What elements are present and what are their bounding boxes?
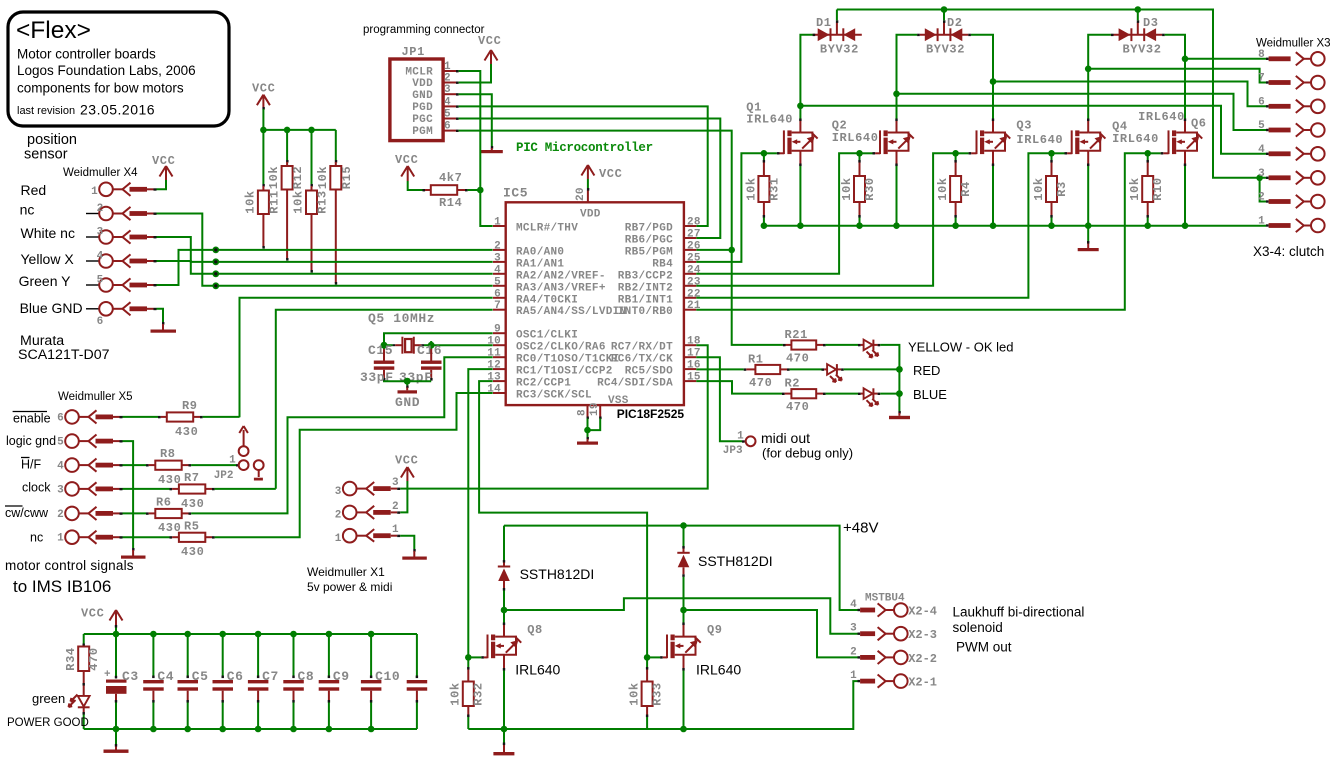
wire: Q9 drain node to X2 pin2 xyxy=(680,607,857,658)
svg-text:VCC: VCC xyxy=(152,154,175,168)
connector X3 pin 3 xyxy=(1258,168,1325,185)
wire: D3 right anode to Q6 drain column xyxy=(1165,35,1185,121)
svg-text:R4: R4 xyxy=(959,181,973,197)
svg-text:MCLR#/THV: MCLR#/THV xyxy=(516,223,578,235)
svg-text:20: 20 xyxy=(575,187,587,201)
resistor R33 10k (Q9 gate) xyxy=(627,654,664,729)
wire: PIC pin12 to Q8 gate xyxy=(468,369,492,657)
svg-text:YELLOW - OK led: YELLOW - OK led xyxy=(908,340,1013,355)
svg-text:solenoid: solenoid xyxy=(953,620,1003,635)
svg-text:5: 5 xyxy=(444,109,451,121)
wire: VCC stem to top rail xyxy=(113,628,120,638)
wire: PIC pin21 to Q6 gate xyxy=(696,153,1147,309)
svg-text:C4: C4 xyxy=(157,669,174,684)
svg-text:R10: R10 xyxy=(1151,177,1165,200)
wire: R6 (cw/cww) to PIC pin11 xyxy=(191,357,493,513)
resistor R30 10k (gate pulldown of Q2) xyxy=(840,150,877,229)
svg-text:R33: R33 xyxy=(650,682,664,705)
svg-text:RB3/CCP2: RB3/CCP2 xyxy=(618,270,673,282)
svg-text:motor control signals: motor control signals xyxy=(5,558,134,573)
connector X2 pin 3 xyxy=(850,623,937,643)
label: Q2 IRL640 xyxy=(832,119,879,146)
svg-text:10k: 10k xyxy=(744,177,758,200)
connector X5 pin 2 (cw/cww) xyxy=(57,507,122,521)
wire: PIC pin25 to Q1 gate xyxy=(696,153,764,262)
resistor R5 430 xyxy=(123,520,215,560)
diode SSTH812DI (Q8 flyback) xyxy=(498,526,510,610)
svg-text:R34: R34 xyxy=(64,647,78,670)
svg-text:IRL640: IRL640 xyxy=(515,662,560,678)
connector X5 pin 4 (H/F) xyxy=(57,458,122,472)
svg-text:VSS: VSS xyxy=(608,395,629,407)
resistor R9 430 xyxy=(123,399,203,439)
svg-text:D2: D2 xyxy=(947,16,963,30)
svg-text:green: green xyxy=(32,691,65,706)
connector X4 pin 1 xyxy=(91,183,156,199)
svg-text:VCC: VCC xyxy=(81,607,104,621)
svg-text:Weidmuller X4: Weidmuller X4 xyxy=(63,167,138,179)
svg-text:10k: 10k xyxy=(244,190,258,213)
label: Q9 IRL640 xyxy=(696,623,741,678)
svg-text:5: 5 xyxy=(97,275,104,287)
svg-text:C8: C8 xyxy=(298,669,315,684)
svg-text:VCC: VCC xyxy=(395,454,418,468)
connector X1 pin 2 xyxy=(335,501,400,522)
diode pair D1 BYV32 xyxy=(813,16,862,57)
wire: R9 to corner up (enable net) xyxy=(203,416,240,418)
svg-text:R11: R11 xyxy=(268,190,282,213)
svg-text:PWM out: PWM out xyxy=(956,640,1012,655)
svg-text:2: 2 xyxy=(392,501,399,513)
svg-text:4: 4 xyxy=(444,96,451,108)
svg-text:INT0/RB0: INT0/RB0 xyxy=(618,306,673,318)
svg-text:R14: R14 xyxy=(439,196,462,210)
svg-text:4: 4 xyxy=(57,461,64,473)
svg-text:6: 6 xyxy=(444,121,451,133)
LED red xyxy=(822,364,844,382)
IC5 right pin stubs xyxy=(684,226,696,381)
IC5 left pin names xyxy=(516,223,626,402)
ground (PIC VSS) xyxy=(577,437,598,445)
svg-text:SSTH812DI: SSTH812DI xyxy=(520,566,595,582)
power VCC (bypass bank) xyxy=(81,607,123,628)
wire: VDD to VCC xyxy=(587,179,589,188)
label: midi out (for debug only) xyxy=(761,430,853,461)
IC5 left pin stubs xyxy=(493,226,506,393)
svg-text:470: 470 xyxy=(786,352,809,366)
label: Q4 IRL640 xyxy=(1112,120,1159,147)
svg-text:R5: R5 xyxy=(184,520,200,534)
svg-text:1: 1 xyxy=(737,431,744,443)
svg-text:PIC18F2525: PIC18F2525 xyxy=(617,407,685,421)
connector X4 pin 5 xyxy=(86,275,157,292)
label: YELLOW - OK led / RED / BLUE xyxy=(908,340,1013,403)
svg-text:430: 430 xyxy=(181,497,204,511)
svg-text:4: 4 xyxy=(1258,144,1265,156)
svg-text:19: 19 xyxy=(589,402,601,416)
svg-text:RC1/T1OSI/CCP2: RC1/T1OSI/CCP2 xyxy=(516,366,613,378)
svg-text:R12: R12 xyxy=(291,166,305,189)
wire: D2 right anode to Q3 drain column xyxy=(971,35,993,121)
svg-text:2: 2 xyxy=(444,73,451,85)
wire: VCC rail over pull-up resistors xyxy=(260,109,336,184)
wire: Q6 source to gnd rail xyxy=(1182,151,1189,229)
svg-text:IRL640: IRL640 xyxy=(1016,133,1063,147)
svg-text:4k7: 4k7 xyxy=(439,171,462,185)
svg-text:IRL640: IRL640 xyxy=(1112,132,1159,146)
wire: Q9 source to gnd rail xyxy=(680,655,687,733)
svg-text:RA5/AN4/SS/LVDIN: RA5/AN4/SS/LVDIN xyxy=(516,306,626,318)
svg-text:MCLR: MCLR xyxy=(405,67,433,79)
wire: Q3 source to gnd rail xyxy=(990,151,997,229)
svg-text:5v power & midi: 5v power & midi xyxy=(307,580,392,594)
power VCC (R14) xyxy=(395,153,418,181)
resistor R14 4k7 xyxy=(408,171,481,210)
label: motor control signals / to IMS IB106 xyxy=(5,558,134,596)
svg-text:2: 2 xyxy=(57,509,64,521)
ground (X5 logic gnd) xyxy=(121,548,146,559)
svg-text:BLUE: BLUE xyxy=(913,387,947,402)
power VCC (JP1) xyxy=(478,34,501,64)
svg-text:1: 1 xyxy=(1258,216,1265,228)
wire: Q4 source to gnd rail xyxy=(1085,151,1092,229)
connector X4 pin 6 xyxy=(86,302,157,328)
svg-text:3: 3 xyxy=(97,227,104,239)
svg-text:VCC: VCC xyxy=(252,82,275,96)
wire: PIC pin10 to crystal right node xyxy=(424,341,493,350)
svg-text:IRL640: IRL640 xyxy=(696,662,741,678)
ground (solenoid rail) xyxy=(493,729,514,755)
X4 pin name labels xyxy=(19,182,83,316)
svg-text:IRL640: IRL640 xyxy=(746,113,793,127)
resistor R21 470 xyxy=(783,328,826,366)
label: green / POWER GOOD xyxy=(7,691,89,729)
svg-text:D3: D3 xyxy=(1143,16,1159,30)
svg-text:White nc: White nc xyxy=(21,225,75,241)
title frame box xyxy=(8,12,229,126)
svg-text:2: 2 xyxy=(850,646,857,658)
svg-text:VCC: VCC xyxy=(395,153,418,167)
svg-text:BYV32: BYV32 xyxy=(926,43,965,57)
connector X3 pin 6 xyxy=(1258,96,1325,113)
capacitor C9 xyxy=(319,631,350,733)
svg-text:OSC2/CLKO/RA6: OSC2/CLKO/RA6 xyxy=(516,342,606,354)
jumper JP2 xyxy=(214,426,264,482)
svg-text:logic gnd: logic gnd xyxy=(6,434,56,448)
wire: D3 left anode to Q4 drain column xyxy=(1088,35,1111,121)
svg-text:3: 3 xyxy=(494,252,501,264)
wire: X4 pin2 to PIC pin5 (RA3) xyxy=(157,214,493,290)
svg-text:RC4/SDI/SDA: RC4/SDI/SDA xyxy=(597,378,673,390)
svg-text:6: 6 xyxy=(97,316,104,328)
resistor R6 430 xyxy=(123,496,192,536)
wire: R7 to corner up (clock net) xyxy=(215,488,276,490)
svg-text:RA3/AN3/VREF+: RA3/AN3/VREF+ xyxy=(516,282,606,294)
svg-text:RC3/SCK/SCL: RC3/SCK/SCL xyxy=(516,390,592,402)
resistor R13 10k xyxy=(292,184,330,273)
svg-text:nc: nc xyxy=(30,531,43,545)
wire: Q6 drain stub xyxy=(1184,119,1186,133)
capacitor C3 (polarized) xyxy=(104,634,139,732)
wire: JP1 PGC to PIC pin27 xyxy=(459,119,721,239)
svg-text:3: 3 xyxy=(57,484,64,496)
ground (bypass bank) xyxy=(104,729,129,753)
svg-text:RB7/PGD: RB7/PGD xyxy=(625,223,673,235)
wire: D1 tap to rail xyxy=(836,10,838,21)
IC5 right pin numbers xyxy=(687,217,701,384)
svg-text:7: 7 xyxy=(494,300,501,312)
ground (X4 pin6) xyxy=(151,322,177,333)
transistor Q3 IRL640 xyxy=(956,130,1011,154)
connector X3 pin 8 xyxy=(1258,49,1325,66)
wire: X5 pin5 logic gnd down to ground xyxy=(123,441,134,548)
wire: Q4 drain stub xyxy=(1087,119,1089,133)
svg-text:IRL640: IRL640 xyxy=(1138,110,1185,124)
power VCC (X1) xyxy=(395,454,418,482)
svg-text:3: 3 xyxy=(392,477,399,489)
wire: R21 to LED yellow xyxy=(826,344,858,346)
svg-text:1: 1 xyxy=(444,61,451,73)
svg-text:5: 5 xyxy=(57,437,64,449)
svg-text:430: 430 xyxy=(158,521,181,535)
wire: +48V rail from X2 pin4 xyxy=(504,522,858,610)
capacitor C7 xyxy=(248,631,279,733)
resistor R3 10k (gate pulldown of Q4) xyxy=(1032,150,1069,229)
svg-text:R21: R21 xyxy=(785,328,808,342)
wire: X4 pin6 to ground xyxy=(157,309,164,322)
svg-text:RB2/INT2: RB2/INT2 xyxy=(618,282,673,294)
svg-text:RC7/RX/DT: RC7/RX/DT xyxy=(611,342,673,354)
svg-text:X2-3: X2-3 xyxy=(908,628,937,642)
svg-text:+: + xyxy=(104,669,111,681)
crystal Q5 xyxy=(393,337,424,354)
svg-text:3: 3 xyxy=(444,84,451,96)
svg-text:470: 470 xyxy=(87,647,101,670)
svg-text:6: 6 xyxy=(494,288,501,300)
connector X5 pin 1 (nc) xyxy=(57,530,122,544)
svg-text:33pF: 33pF xyxy=(399,370,433,385)
svg-text:6: 6 xyxy=(1258,96,1265,108)
connector X5 pin 6 (enable) xyxy=(57,410,122,424)
wire: Q2 drain stub xyxy=(895,119,897,133)
ground (MOSFET rail) xyxy=(1078,226,1099,252)
wire: D1 left anode to Q1 drain column xyxy=(800,35,812,121)
label: Q3 IRL640 xyxy=(1016,119,1063,147)
wire: JP1 GND pin3 down xyxy=(459,94,492,146)
svg-text:POWER GOOD: POWER GOOD xyxy=(7,717,89,729)
wire: Q8 source to gnd rail xyxy=(501,655,508,733)
svg-text:RC0/T1OSO/T1CKI: RC0/T1OSO/T1CKI xyxy=(516,354,620,366)
svg-text:28: 28 xyxy=(687,217,701,229)
svg-text:Q9: Q9 xyxy=(707,623,723,637)
svg-text:RC5/SDO: RC5/SDO xyxy=(625,366,673,378)
svg-text:R9: R9 xyxy=(182,399,198,413)
wire: R1 to LED red xyxy=(790,368,822,370)
svg-text:R15: R15 xyxy=(340,166,354,189)
wire: crystal caps to ground xyxy=(384,378,431,386)
svg-text:3: 3 xyxy=(1258,168,1265,180)
svg-text:470: 470 xyxy=(749,376,772,390)
ground (LEDs) xyxy=(889,411,910,419)
resistor R7 430 xyxy=(123,471,215,511)
svg-text:1: 1 xyxy=(229,455,236,467)
capacitor C16 33pF xyxy=(399,349,442,385)
wire: D3 tap to rail xyxy=(1137,10,1139,21)
svg-text:C16: C16 xyxy=(417,343,442,358)
resistor R10 10k (gate pulldown of Q6) xyxy=(1128,150,1165,229)
resistor R12 10k xyxy=(267,160,305,261)
pin JP3 midi out xyxy=(723,431,756,458)
svg-text:5: 5 xyxy=(1258,120,1265,132)
diode pair D3 BYV32 xyxy=(1111,16,1165,57)
svg-text:R31: R31 xyxy=(767,177,781,200)
svg-text:enable: enable xyxy=(13,412,51,426)
svg-text:PGD: PGD xyxy=(412,102,433,114)
wire: R2 to LED blue xyxy=(826,393,858,395)
wire: X1 pin2 to VCC xyxy=(400,481,407,512)
connector X4 pin 4 xyxy=(86,251,157,268)
wire: D2 tap to rail xyxy=(943,10,945,21)
svg-text:GND: GND xyxy=(395,395,420,410)
svg-text:4: 4 xyxy=(850,599,857,611)
svg-text:PGM: PGM xyxy=(412,126,433,138)
wire: bypass bottom rail xyxy=(84,728,417,730)
diode SSTH812DI (Q9 flyback) xyxy=(677,526,689,610)
wire: flyback top rail to X3 pins 3 and 2 xyxy=(837,6,1266,201)
LED blue xyxy=(858,388,880,406)
svg-text:RB5/PGM: RB5/PGM xyxy=(625,246,673,258)
wire: solenoid driver gnd rail to X2 pin1 xyxy=(468,681,857,729)
svg-text:3: 3 xyxy=(850,623,857,635)
wire: LED yellow to gnd rail corner xyxy=(880,345,899,411)
svg-text:10k: 10k xyxy=(1032,177,1046,200)
svg-text:R1: R1 xyxy=(748,353,764,367)
svg-text:BYV32: BYV32 xyxy=(1123,43,1162,57)
capacitor C15 33pF xyxy=(360,349,394,385)
svg-text:1: 1 xyxy=(392,524,399,536)
connector X3 pin 4 xyxy=(1258,144,1325,161)
svg-text:RB1/INT1: RB1/INT1 xyxy=(618,294,673,306)
svg-text:10k: 10k xyxy=(449,682,463,705)
wire: Q4 drain node to X3 pin7 xyxy=(1085,66,1266,83)
svg-text:JP2: JP2 xyxy=(214,470,234,482)
wire: PIC pin22 to Q4 gate xyxy=(696,153,1051,297)
svg-text:Q6: Q6 xyxy=(1191,117,1207,131)
svg-text:10k: 10k xyxy=(936,177,950,200)
capacitor C10 xyxy=(361,631,400,733)
wire: X1 pin1 to ground xyxy=(400,536,414,549)
svg-text:26: 26 xyxy=(687,240,701,252)
wire: PIC pin23 to Q3 gate xyxy=(696,153,955,285)
svg-text:X2-4: X2-4 xyxy=(908,605,937,619)
svg-text:C7: C7 xyxy=(262,669,279,684)
wire: VSS pins to ground xyxy=(584,419,600,438)
connector X1 pin 1 xyxy=(335,524,400,545)
wire: D2 left anode to Q2 drain column xyxy=(897,35,918,121)
wire: R5 (nc) to PIC pin14 xyxy=(215,393,493,537)
svg-text:C6: C6 xyxy=(227,669,244,684)
wire: PIC pin17 to JP3 (midi tx) xyxy=(696,357,742,441)
svg-text:3: 3 xyxy=(335,486,342,498)
svg-text:R32: R32 xyxy=(472,682,486,705)
connector X5 pin 5 (logic gnd) xyxy=(57,434,122,448)
resistor R31 10k (gate pulldown of Q1) xyxy=(744,150,781,229)
wire: Q8 drain node to X2 pin3 xyxy=(501,598,858,633)
wire: R8 to JP2 pin1 xyxy=(191,464,236,466)
svg-text:1: 1 xyxy=(335,533,342,545)
wire: Q2 drain node to X3 pin5 xyxy=(893,91,1266,131)
svg-text:10k: 10k xyxy=(1128,177,1142,200)
svg-text:Weidmuller X5: Weidmuller X5 xyxy=(58,391,133,403)
svg-text:Q3: Q3 xyxy=(1016,119,1032,133)
svg-text:Weidmuller X3: Weidmuller X3 xyxy=(1256,38,1330,50)
svg-text:X2-2: X2-2 xyxy=(908,652,937,666)
wire: MOSFET source gnd rail to X3 pin1 xyxy=(764,225,1266,227)
svg-text:RC6/TX/CK: RC6/TX/CK xyxy=(611,354,673,366)
svg-text:4: 4 xyxy=(97,251,104,263)
ground (X1 pin1) xyxy=(402,549,427,560)
capacitor C5 xyxy=(178,631,209,733)
svg-text:7: 7 xyxy=(1258,73,1265,85)
capacitor C6 xyxy=(213,631,244,733)
svg-text:R6: R6 xyxy=(156,496,172,510)
svg-text:8: 8 xyxy=(577,409,589,416)
connector X5 pin 3 (clock) xyxy=(57,482,122,496)
svg-text:2: 2 xyxy=(1258,192,1265,204)
svg-text:1: 1 xyxy=(494,217,501,229)
svg-text:VCC: VCC xyxy=(599,167,622,181)
svg-text:H/F: H/F xyxy=(21,458,42,472)
connector X1 pin 3 xyxy=(335,477,400,498)
svg-text:Q5 10MHz: Q5 10MHz xyxy=(368,311,435,326)
svg-text:C3: C3 xyxy=(122,669,139,684)
wire: bypass top rail xyxy=(84,633,417,635)
svg-text:Laukhuff bi-directional: Laukhuff bi-directional xyxy=(953,605,1085,620)
connector X2 pin 1 xyxy=(850,670,937,690)
ground (JP1) xyxy=(481,146,503,153)
power VCC (PIC VDD) xyxy=(581,165,622,181)
svg-text:C5: C5 xyxy=(192,669,209,684)
svg-text:R30: R30 xyxy=(863,177,877,200)
svg-text:PGC: PGC xyxy=(412,114,433,126)
svg-text:470: 470 xyxy=(786,400,809,414)
wire: X4 pin5 to PIC pin2 (RA0) xyxy=(157,247,493,286)
label: Q1 IRL640 xyxy=(746,101,793,127)
svg-text:R2: R2 xyxy=(785,377,801,391)
resistor R32 10k (Q8 gate) xyxy=(449,654,486,729)
svg-text:2: 2 xyxy=(97,203,104,215)
svg-text:RB6/PGC: RB6/PGC xyxy=(625,235,673,247)
wire: Q6 drain node to X3 pin8 xyxy=(1182,56,1266,63)
svg-text:R7: R7 xyxy=(184,471,200,485)
IC5 VSS pins 8 and 19 xyxy=(577,395,629,419)
svg-text:Weidmuller X1: Weidmuller X1 xyxy=(307,565,385,579)
svg-text:R3: R3 xyxy=(1055,181,1069,197)
label: Laukhuff bi-directional solenoid / PWM out xyxy=(953,605,1085,655)
LED yellow (OK led) xyxy=(858,340,880,358)
svg-text:IRL640: IRL640 xyxy=(832,131,879,145)
wire: Q8 drain stub xyxy=(503,610,505,637)
label: Q8 IRL640 xyxy=(515,623,560,678)
wire: Q1 drain node to X3 pin4 xyxy=(797,103,1266,154)
resistor R8 430 xyxy=(123,447,192,487)
svg-text:RA1/AN1: RA1/AN1 xyxy=(516,258,564,270)
svg-text:RB4: RB4 xyxy=(652,258,673,270)
svg-text:430: 430 xyxy=(175,425,198,439)
label: Q6 IRL640 xyxy=(1138,110,1207,131)
wire: LED blue to gnd xyxy=(880,390,903,397)
transistor Q8 IRL640 xyxy=(468,635,521,659)
